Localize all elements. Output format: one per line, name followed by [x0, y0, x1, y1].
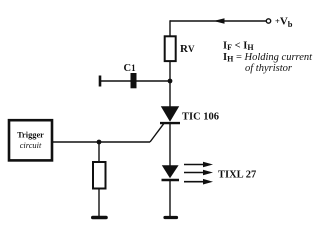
svg-text:TIXL 27: TIXL 27 — [218, 170, 256, 181]
svg-text:Trigger: Trigger — [17, 131, 44, 140]
wire gate diagonal — [150, 124, 164, 142]
wire RV to node A — [169, 61, 171, 107]
svg-text:C1: C1 — [124, 63, 137, 74]
wire R2 to ground — [98, 189, 100, 217]
light arrow 1 — [184, 164, 204, 166]
svg-text:IH = Holding current: IH = Holding current — [223, 52, 313, 64]
trigger circuit box — [9, 120, 52, 160]
current direction arrow — [214, 18, 225, 23]
capacitor C1 left terminal bar — [99, 76, 102, 87]
LED D1 TIXL 27 triangle — [162, 165, 179, 178]
terminal +Vb — [266, 19, 270, 23]
wire top horizontal rail — [170, 20, 266, 22]
thyristor U1 TIC 106 triangle (anode) — [161, 106, 179, 122]
resistor RV — [165, 36, 176, 61]
light arrow 2 — [184, 172, 204, 174]
ground under LED — [165, 216, 177, 219]
node B junction dot — [97, 140, 102, 145]
light arrow 3 — [184, 181, 204, 183]
wire thyristor to LED — [169, 123, 171, 166]
svg-text:RV: RV — [180, 43, 195, 55]
capacitor C1 plate — [131, 73, 137, 88]
wire node B to resistor R2 — [98, 142, 100, 162]
svg-text:IF < IH: IF < IH — [223, 41, 254, 53]
wire trigger output — [52, 141, 150, 143]
wire C1 branch — [100, 80, 170, 82]
svg-text:of thyristor: of thyristor — [245, 63, 293, 74]
node A junction dot — [168, 79, 173, 84]
thyristor cathode bar — [160, 122, 180, 124]
resistor R2 — [93, 162, 106, 189]
wire top rail to RV — [169, 20, 171, 36]
ground under R2 — [93, 216, 106, 220]
svg-text:TIC 106: TIC 106 — [182, 112, 219, 123]
LED cathode bar — [162, 179, 180, 182]
wire LED to ground — [169, 181, 171, 216]
svg-text:circuit: circuit — [20, 141, 42, 150]
